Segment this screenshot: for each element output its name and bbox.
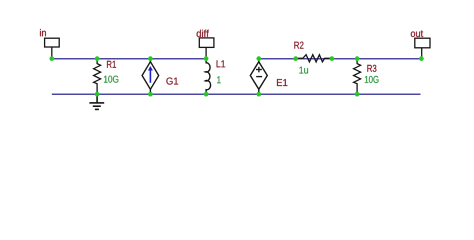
label L1 xyxy=(217,60,226,67)
resistor R2 xyxy=(296,55,332,62)
label diff xyxy=(197,30,209,37)
node R2 right xyxy=(330,56,335,61)
resistor R1 xyxy=(94,58,101,94)
value 1 (L1) xyxy=(217,76,220,83)
label G1 xyxy=(166,78,178,85)
label R3 xyxy=(367,65,376,72)
node E1 top xyxy=(256,56,261,61)
node E1 bottom xyxy=(256,92,261,97)
port out xyxy=(415,38,430,58)
node R1 bottom xyxy=(95,92,100,97)
wire top-left (in to L1) xyxy=(52,58,206,60)
value 1u (R2) xyxy=(299,67,308,74)
wire top-right (E1 to out) xyxy=(259,58,422,60)
node R3 bottom xyxy=(355,92,360,97)
node in xyxy=(49,56,54,61)
node G1 top xyxy=(148,56,153,61)
ground xyxy=(89,94,104,109)
label R1 xyxy=(107,61,116,68)
label R2 xyxy=(294,42,303,49)
node R3 top xyxy=(355,56,360,61)
node R1 top xyxy=(95,56,100,61)
current source G1 xyxy=(142,58,159,94)
inductor L1 xyxy=(205,58,210,94)
wire bottom xyxy=(52,93,421,95)
label in xyxy=(40,29,46,36)
port diff xyxy=(199,38,214,59)
label out xyxy=(411,30,423,37)
voltage source E1 xyxy=(250,58,267,94)
node L1 bottom xyxy=(204,92,209,97)
port in xyxy=(45,38,60,58)
node out xyxy=(419,56,424,61)
value 10G (R1) xyxy=(104,76,118,83)
node G1 bottom xyxy=(148,92,153,97)
value 10G (R3) xyxy=(365,76,379,83)
node diff/L1 top xyxy=(204,56,209,61)
label E1 xyxy=(277,79,287,86)
resistor R3 xyxy=(354,58,361,94)
node R2 left xyxy=(293,56,298,61)
